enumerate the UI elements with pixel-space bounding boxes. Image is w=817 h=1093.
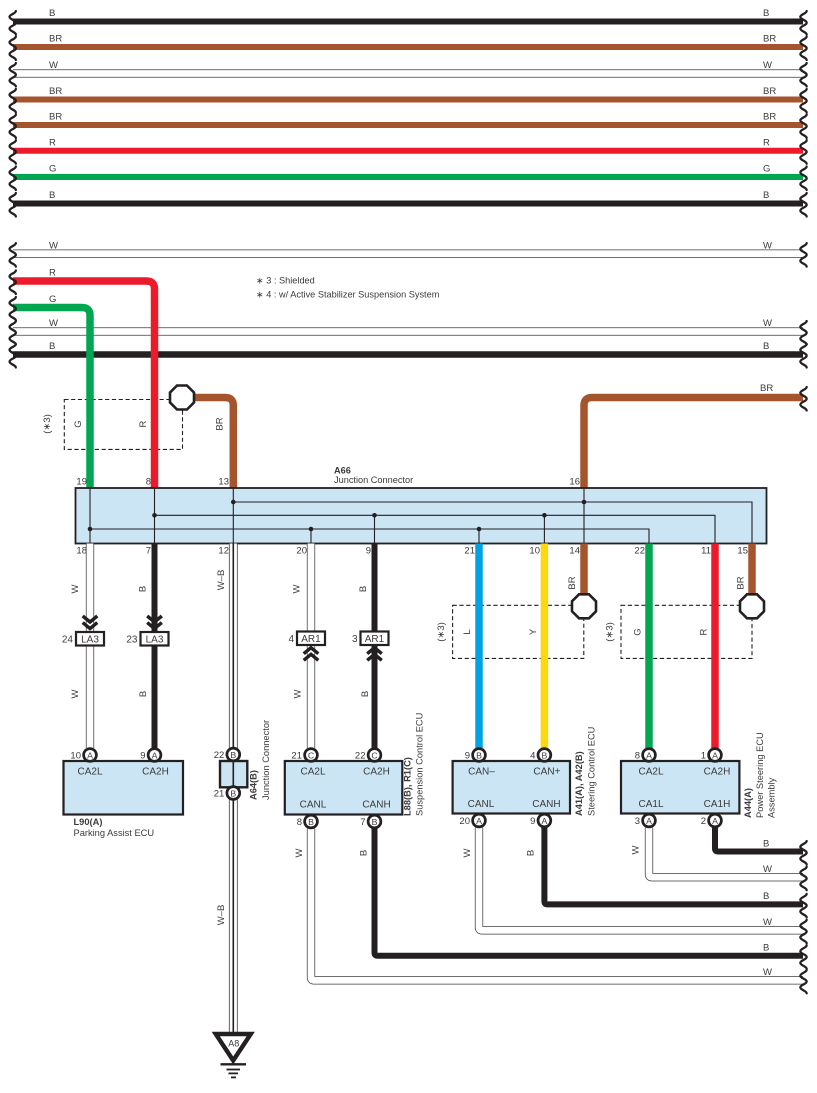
svg-text:B: B (542, 750, 548, 760)
wire BR from shield octagon to A66 pin 13 (193, 398, 233, 489)
wire B bus (13, 351, 803, 358)
svg-text:B: B (763, 341, 769, 352)
wire B bus y=21.5 (13, 19, 803, 25)
junction dot (372, 513, 377, 518)
ECU A41(A),A42(B) Steering Control ECU (453, 761, 570, 814)
svg-text:A: A (542, 816, 548, 826)
A66 internal bus CA2H net (155, 515, 716, 543)
svg-text:C: C (371, 750, 377, 760)
wire B A66 pin7 to L90 pin 9 (152, 544, 158, 749)
wire BR bus y=47 (13, 44, 803, 50)
svg-text:A: A (476, 816, 482, 826)
svg-text:7: 7 (146, 546, 151, 557)
svg-text:BR: BR (49, 34, 62, 45)
svg-text:W: W (462, 848, 473, 857)
svg-text:W: W (763, 318, 772, 329)
junction dot (309, 527, 314, 532)
pin 9(A) (148, 749, 161, 762)
wire W-B A66 pin12 to ground A8 (229, 544, 238, 1035)
pin 10(A) (84, 749, 97, 762)
wire BR from A66 pin 16 to right break (584, 398, 803, 489)
svg-text:W–B: W–B (216, 905, 227, 926)
shield box (*3) around L and Y (453, 605, 584, 658)
svg-text:Junction Connector: Junction Connector (261, 720, 271, 800)
pin 21(C) (305, 749, 318, 762)
wire L blue A66 pin21 to A41 CAN- (475, 544, 483, 749)
A66 stub x=311 (310, 529, 312, 544)
pin 2(A) (709, 814, 722, 827)
pin 8(A) (643, 749, 656, 762)
svg-text:G: G (763, 164, 770, 175)
svg-text:A: A (87, 750, 93, 760)
junction dot (152, 513, 157, 518)
svg-text:9: 9 (140, 751, 145, 762)
connector LA3 pin 24 (83, 616, 98, 629)
A66 internal bus CA2L net (90, 529, 649, 544)
svg-text:BR: BR (763, 112, 776, 123)
svg-text:B: B (360, 691, 371, 697)
shield ground octagon (170, 385, 194, 409)
wire BR bus y=125 (13, 122, 803, 128)
svg-text:A44(A): A44(A) (743, 788, 753, 818)
svg-text:R: R (763, 137, 770, 148)
svg-text:B: B (138, 586, 149, 592)
A66 internal bus shield net (233, 502, 752, 544)
svg-text:B: B (308, 817, 314, 827)
svg-text:(∗3): (∗3) (436, 622, 447, 642)
svg-text:19: 19 (76, 477, 87, 488)
svg-text:LA3: LA3 (81, 635, 99, 646)
wire B bus y=203.5 (13, 201, 803, 207)
svg-text:15: 15 (737, 546, 748, 557)
wire R bus y=150.7 (13, 148, 803, 154)
svg-text:BR: BR (567, 576, 578, 589)
wire BR bus y=99.5 (13, 97, 803, 103)
junction connector A66 (76, 488, 767, 544)
svg-text:BR: BR (215, 417, 226, 430)
svg-text:10: 10 (529, 546, 540, 557)
wire W from pin x=649 to right break (649, 828, 803, 878)
svg-text:CA2H: CA2H (363, 767, 390, 778)
svg-text:G: G (633, 628, 644, 635)
svg-text:LA3: LA3 (146, 635, 164, 646)
svg-text:CA2H: CA2H (704, 767, 731, 778)
svg-text:8: 8 (635, 751, 640, 762)
svg-text:B: B (49, 341, 55, 352)
wire W (CANL trunk) (13, 249, 803, 257)
svg-text:CA2H: CA2H (142, 767, 169, 778)
svg-text:L90(A): L90(A) (74, 817, 103, 827)
wire G bus y=177 (13, 174, 803, 180)
svg-text:G: G (49, 164, 56, 175)
svg-text:W: W (70, 584, 81, 593)
pin 4(B) (538, 749, 551, 762)
shield box (*3) around G and R (64, 400, 182, 450)
svg-text:Y: Y (528, 628, 539, 635)
svg-text:B: B (763, 190, 769, 201)
A66 stub x=374.5 (374, 515, 376, 543)
svg-text:BR: BR (763, 86, 776, 97)
pin 20(A) (473, 814, 486, 827)
svg-text:18: 18 (76, 546, 87, 557)
svg-text:A: A (646, 750, 652, 760)
svg-text:9: 9 (366, 546, 371, 557)
svg-text:8: 8 (146, 477, 151, 488)
svg-text:W: W (763, 864, 772, 875)
svg-text:B: B (359, 850, 370, 856)
wire B from pin x=374.5 to right break (375, 829, 804, 956)
svg-text:AR1: AR1 (365, 634, 385, 645)
svg-text:(∗3): (∗3) (42, 414, 53, 434)
svg-text:CANL: CANL (468, 799, 495, 810)
svg-text:20: 20 (296, 546, 307, 557)
A66 stub x=544.4 (543, 515, 545, 543)
svg-text:Suspension Control ECU: Suspension Control ECU (415, 713, 425, 816)
A66 through line x=584 (583, 488, 585, 544)
pin 22(B) (227, 748, 240, 761)
svg-text:B: B (49, 190, 55, 201)
connector LA3 pin 23 (147, 616, 162, 629)
svg-text:3: 3 (635, 816, 640, 827)
pin 7(B) (368, 815, 381, 828)
svg-text:13: 13 (218, 477, 229, 488)
A66 through line x=90 (89, 488, 91, 544)
svg-text:24: 24 (62, 635, 74, 646)
svg-text:W: W (763, 240, 772, 251)
svg-text:14: 14 (569, 546, 580, 557)
svg-text:CANH: CANH (532, 799, 560, 810)
svg-text:R: R (49, 137, 56, 148)
wire W from pin x=311 to right break (311, 829, 803, 981)
svg-text:Power Steering ECU: Power Steering ECU (755, 732, 765, 818)
wire G A66 pin22 to A44 CA2L (645, 544, 653, 749)
svg-text:CA1L: CA1L (638, 799, 663, 810)
svg-text:CANH: CANH (362, 800, 390, 811)
wire W A66 pin18 to L90 pin 10 (86, 544, 94, 749)
svg-text:12: 12 (218, 546, 229, 557)
svg-text:BR: BR (736, 576, 747, 589)
shield box (*3) around G and R (621, 605, 752, 658)
svg-text:B: B (358, 586, 369, 592)
svg-text:CAN–: CAN– (468, 767, 495, 778)
shield ground octagon (740, 594, 764, 618)
svg-text:7: 7 (360, 817, 365, 828)
ground A8 (216, 1034, 251, 1061)
svg-text:22: 22 (634, 546, 645, 557)
svg-text:B: B (138, 691, 149, 697)
svg-text:1: 1 (701, 751, 706, 762)
svg-text:B: B (372, 817, 378, 827)
svg-text:16: 16 (569, 477, 580, 488)
svg-text:11: 11 (701, 546, 711, 557)
svg-text:W: W (49, 60, 58, 71)
svg-text:A: A (152, 750, 158, 760)
svg-text:∗ 4 : w/ Active Stabilizer Sus: ∗ 4 : w/ Active Stabilizer Suspension Sy… (256, 290, 440, 300)
svg-text:21: 21 (291, 751, 302, 762)
wire W from pin x=479 to right break (479, 828, 803, 931)
svg-text:L88(B), R1(C): L88(B), R1(C) (403, 757, 413, 816)
wire Y yellow A66 pin10 to A41 CAN+ (541, 544, 549, 749)
pin 9(A) (538, 814, 551, 827)
pin 22(C) (368, 749, 381, 762)
svg-text:R: R (138, 420, 149, 427)
svg-text:A: A (646, 816, 652, 826)
svg-text:22: 22 (355, 751, 366, 762)
svg-text:L: L (462, 629, 473, 634)
connector AR1 pin 3 (361, 632, 389, 646)
svg-text:23: 23 (126, 635, 138, 646)
svg-text:B: B (526, 850, 537, 856)
shield ground octagon (572, 594, 596, 618)
svg-text:(∗3): (∗3) (605, 622, 616, 642)
svg-text:R: R (699, 628, 710, 635)
wire W bus (13, 327, 803, 335)
wire B A66 pin9 to L88 pin 22 (372, 544, 378, 749)
svg-text:20: 20 (459, 816, 470, 827)
junction connector A64(B) (220, 761, 247, 787)
svg-text:A41(A), A42(B): A41(A), A42(B) (574, 751, 584, 816)
A66 through line x=154.5 (154, 488, 156, 544)
pin 21(B) (227, 787, 240, 800)
svg-text:21: 21 (464, 546, 475, 557)
wire R A66 pin11 to A44 CA2H (711, 544, 719, 749)
svg-text:G: G (49, 294, 56, 305)
wire B from pin x=544.4 to right break (544, 828, 803, 905)
svg-text:AR1: AR1 (301, 634, 321, 645)
svg-text:W: W (49, 240, 58, 251)
svg-text:B: B (476, 750, 482, 760)
wire BR A66 pin15 to shield octagon (748, 544, 756, 595)
svg-text:W: W (763, 917, 772, 928)
svg-text:BR: BR (763, 34, 776, 45)
svg-text:21: 21 (214, 789, 225, 800)
svg-text:C: C (308, 750, 314, 760)
svg-text:B: B (230, 750, 236, 760)
svg-text:22: 22 (214, 750, 225, 761)
svg-text:CA2L: CA2L (300, 767, 325, 778)
svg-text:4: 4 (530, 751, 535, 762)
svg-text:CA2L: CA2L (638, 767, 663, 778)
svg-text:10: 10 (70, 751, 81, 762)
svg-text:BR: BR (49, 112, 62, 123)
svg-text:W–B: W–B (216, 570, 227, 591)
wire W bus y=73.5 (13, 69, 803, 77)
junction dot (88, 527, 93, 532)
svg-text:A66: A66 (334, 466, 351, 476)
svg-text:B: B (763, 8, 769, 19)
ECU A44(A) Power Steering ECU Assembly (621, 761, 739, 814)
svg-text:W: W (631, 845, 642, 854)
svg-text:R: R (49, 268, 56, 279)
svg-text:4: 4 (288, 634, 294, 645)
svg-text:G: G (73, 420, 84, 427)
svg-text:∗ 3 : Shielded: ∗ 3 : Shielded (256, 276, 315, 286)
junction dot (477, 527, 482, 532)
svg-text:B: B (763, 891, 769, 902)
svg-text:2: 2 (701, 816, 706, 827)
svg-text:A: A (712, 750, 718, 760)
A66 stub x=479 (478, 529, 480, 544)
svg-text:W: W (763, 60, 772, 71)
svg-text:8: 8 (297, 817, 302, 828)
svg-text:BR: BR (760, 383, 773, 394)
svg-text:Junction Connector: Junction Connector (334, 475, 413, 485)
svg-text:CANL: CANL (300, 800, 327, 811)
wire W A66 pin20 to L88 pin 21 (307, 544, 315, 749)
svg-text:B: B (763, 838, 769, 849)
connector AR1 pin 4 (297, 632, 325, 646)
svg-text:W: W (292, 584, 303, 593)
svg-text:CA2L: CA2L (77, 767, 102, 778)
ECU L90(A) Parking Assist ECU (64, 761, 184, 815)
svg-text:A: A (712, 816, 718, 826)
svg-text:B: B (763, 943, 769, 954)
svg-text:W: W (70, 689, 81, 698)
wire G (CA2L) turning down to A66 pin 19 (13, 308, 90, 489)
svg-text:9: 9 (465, 751, 470, 762)
A66 through line x=233.3 (232, 488, 234, 544)
svg-text:W: W (293, 689, 304, 698)
svg-text:CA1H: CA1H (704, 799, 731, 810)
junction dot (231, 500, 236, 505)
pin 3(A) (643, 814, 656, 827)
wire BR A66 pin14 to shield octagon (580, 544, 588, 595)
svg-text:B: B (230, 788, 236, 798)
svg-text:W: W (763, 967, 772, 978)
pin 9(B) (473, 749, 486, 762)
svg-text:Parking Assist ECU: Parking Assist ECU (74, 828, 155, 838)
svg-text:A8: A8 (228, 1039, 239, 1049)
svg-text:W: W (294, 848, 305, 857)
pin 8(B) (305, 815, 318, 828)
svg-text:B: B (49, 8, 55, 19)
wire B from pin x=715 to right break (715, 828, 803, 852)
pin 1(A) (709, 749, 722, 762)
wire R (CA2H) turning down to A66 pin 8 (13, 281, 155, 488)
svg-text:A64(B): A64(B) (249, 770, 259, 800)
svg-text:9: 9 (530, 816, 535, 827)
ECU L88(B),R1(C) Suspension Control ECU (285, 761, 403, 815)
junction dot (582, 500, 587, 505)
svg-text:Assembly: Assembly (767, 777, 777, 818)
svg-text:BR: BR (49, 86, 62, 97)
svg-text:CAN+: CAN+ (533, 767, 560, 778)
svg-text:W: W (49, 318, 58, 329)
svg-text:3: 3 (352, 634, 358, 645)
svg-text:Steering Control ECU: Steering Control ECU (587, 727, 597, 816)
junction dot (542, 513, 547, 518)
